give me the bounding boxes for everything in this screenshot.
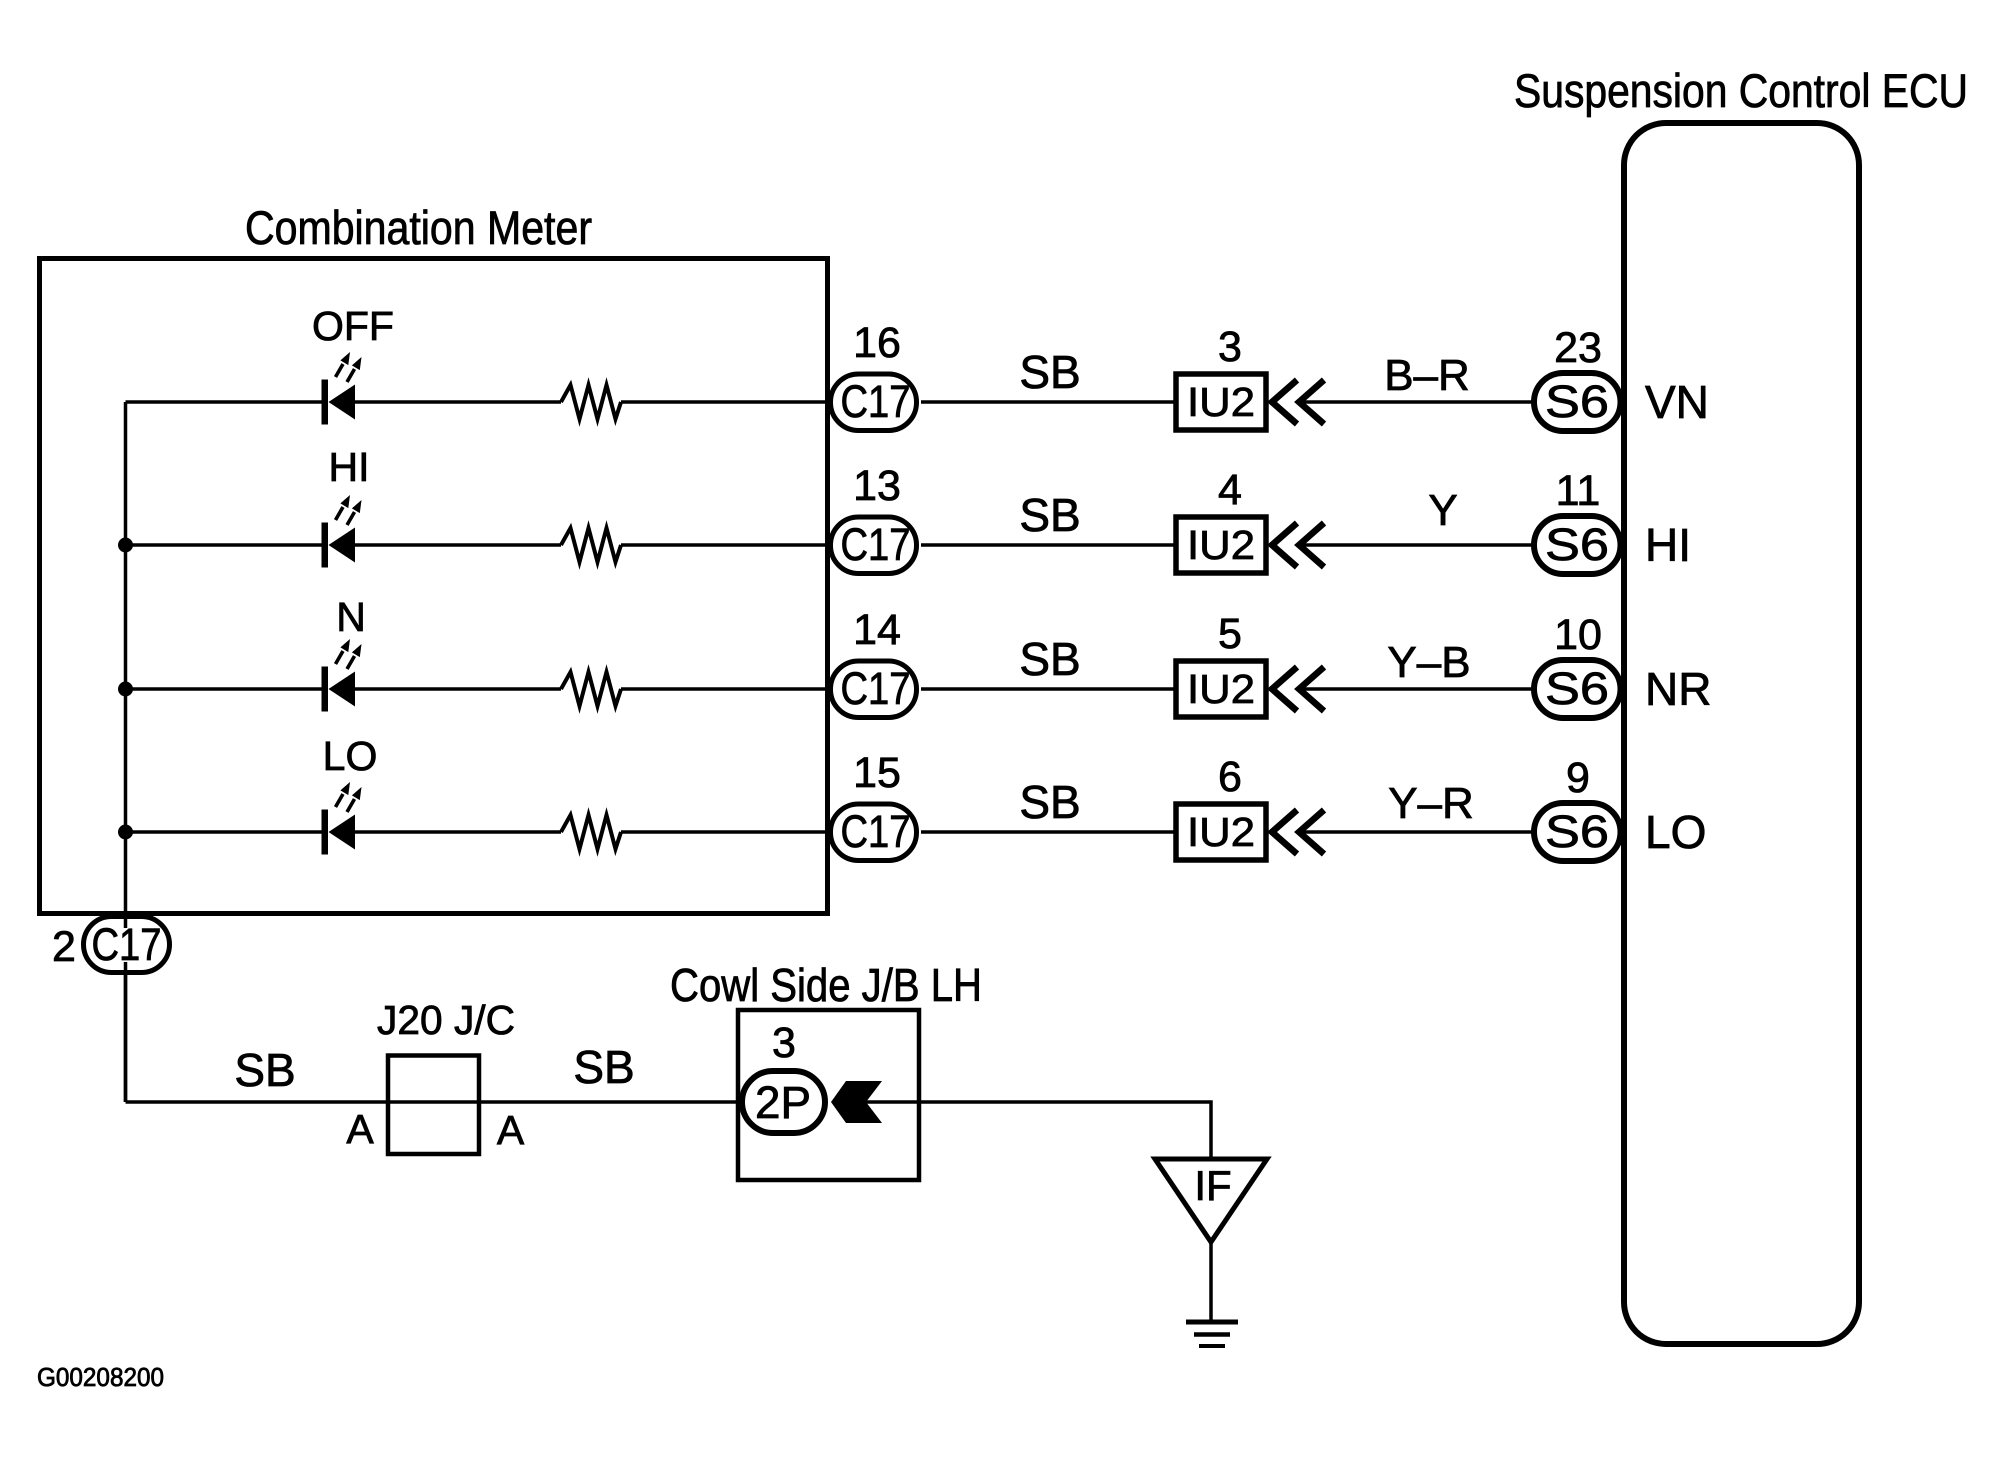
wire row4 resistor to C17	[621, 830, 832, 834]
svg-text:SB: SB	[1019, 346, 1080, 398]
LED D1 cathode bar	[322, 380, 329, 425]
svg-text:J20 J/C: J20 J/C	[377, 997, 515, 1043]
svg-text:C17: C17	[841, 663, 911, 714]
wire row2 chevron to S6, label Y	[1300, 543, 1534, 547]
svg-text:S6: S6	[1545, 663, 1609, 714]
wire row4 LED to resistor	[355, 830, 561, 834]
junction block IU2 row2	[1176, 517, 1266, 573]
wire row1 chevron to S6, label B–R	[1300, 400, 1534, 404]
svg-text:IU2: IU2	[1187, 522, 1255, 568]
junction block IU2 row3	[1176, 661, 1266, 717]
wire row1 LED to resistor	[355, 400, 561, 404]
LED D4 triangle	[329, 815, 356, 850]
wire row3 LED to resistor	[355, 687, 561, 691]
LED D3 triangle	[329, 672, 356, 707]
svg-text:C17: C17	[92, 919, 162, 970]
svg-text:3: 3	[1218, 323, 1242, 371]
resistor R4	[561, 815, 621, 849]
svg-text:SB: SB	[573, 1041, 634, 1093]
wire vertical bus x=125	[124, 402, 128, 1102]
wire vertical through C17 to bottom bus	[124, 916, 128, 1102]
svg-text:5: 5	[1218, 610, 1242, 658]
svg-text:9: 9	[1566, 754, 1590, 802]
ground triangle IF	[1155, 1159, 1267, 1242]
svg-text:10: 10	[1554, 611, 1602, 659]
LED D3 cathode bar	[322, 667, 329, 712]
resistor R1	[561, 385, 621, 419]
chevron connector row4	[1272, 810, 1324, 854]
svg-text:NR: NR	[1645, 663, 1711, 715]
svg-text:Y–R: Y–R	[1388, 779, 1474, 828]
svg-text:HI: HI	[1645, 519, 1691, 571]
wire row3 C17 to IU2, label SB	[921, 687, 1176, 691]
svg-text:Y: Y	[1428, 486, 1457, 535]
wire row2 resistor to C17	[621, 543, 832, 547]
wire triangle to ground	[1209, 1242, 1213, 1322]
chevron connector row3	[1272, 667, 1324, 711]
junction dot row2	[118, 538, 133, 553]
connector S6 row1	[1534, 373, 1621, 431]
resistor R2	[561, 528, 621, 562]
svg-text:2: 2	[52, 923, 76, 971]
junction block IU2 row4	[1176, 804, 1266, 860]
svg-text:3: 3	[772, 1019, 796, 1067]
LED D1 triangle	[329, 385, 356, 420]
svg-text:S6: S6	[1545, 519, 1609, 570]
ground symbol	[1186, 1322, 1238, 1346]
svg-text:SB: SB	[1019, 489, 1080, 541]
svg-text:Cowl Side J/B LH: Cowl Side J/B LH	[670, 959, 982, 1011]
junction dot row3	[118, 682, 133, 697]
junction dot row4	[118, 825, 133, 840]
wire row4 C17 to IU2, label SB	[921, 830, 1176, 834]
svg-text:A: A	[346, 1106, 374, 1152]
LED D4 emission arrows	[336, 782, 362, 812]
svg-text:15: 15	[853, 749, 901, 797]
chevron connector row2	[1272, 523, 1324, 567]
svg-text:2P: 2P	[755, 1077, 811, 1128]
svg-text:SB: SB	[1019, 776, 1080, 828]
svg-text:Suspension Control ECU: Suspension Control ECU	[1514, 64, 1968, 117]
wire 2P to ground drop	[864, 1102, 1211, 1159]
wire bottom bus to 2P, labels SB	[126, 1100, 743, 1104]
wire row3 bus to LED	[126, 687, 323, 691]
svg-text:A: A	[497, 1107, 525, 1153]
svg-text:14: 14	[853, 606, 901, 654]
connector C17 row3	[831, 661, 917, 718]
svg-text:IU2: IU2	[1187, 666, 1255, 712]
connector S6 row4	[1534, 803, 1621, 861]
LED D2 cathode bar	[322, 523, 329, 568]
wire row2 C17 to IU2, label SB	[921, 543, 1176, 547]
svg-text:SB: SB	[1019, 633, 1080, 685]
svg-text:S6: S6	[1545, 376, 1609, 427]
svg-text:VN: VN	[1645, 376, 1709, 428]
wire row4 bus to LED	[126, 830, 323, 834]
svg-text:IU2: IU2	[1187, 809, 1255, 855]
resistor R3	[561, 672, 621, 706]
svg-text:C17: C17	[841, 806, 911, 857]
svg-text:4: 4	[1218, 466, 1242, 514]
wire row2 LED to resistor	[355, 543, 561, 547]
LED D3 emission arrows	[336, 639, 362, 669]
svg-text:SB: SB	[234, 1044, 295, 1096]
LED D2 triangle	[329, 528, 356, 563]
svg-text:S6: S6	[1545, 806, 1609, 857]
wire row1 resistor to C17	[621, 400, 832, 404]
svg-text:IU2: IU2	[1187, 379, 1255, 425]
wire row1 bus to LED	[126, 400, 323, 404]
connector 2 C17 (bottom)	[84, 917, 170, 973]
wire row3 chevron to S6, label Y–B	[1300, 687, 1534, 691]
junction block IU2 row1	[1176, 374, 1266, 430]
connector S6 row3	[1534, 660, 1621, 718]
connector C17 row1	[831, 374, 917, 431]
connector C17 row4	[831, 804, 917, 861]
connector 2P	[742, 1071, 825, 1133]
svg-text:C17: C17	[841, 519, 911, 570]
Cowl Side J/B box	[738, 1010, 919, 1180]
connector C17 row2	[831, 517, 917, 574]
wire row3 resistor to C17	[621, 687, 832, 691]
svg-text:6: 6	[1218, 753, 1242, 801]
LED D2 emission arrows	[336, 495, 362, 525]
svg-text:G00208200: G00208200	[37, 1362, 164, 1392]
svg-text:B–R: B–R	[1384, 351, 1470, 400]
Suspension Control ECU box	[1624, 123, 1859, 1344]
svg-text:Y–B: Y–B	[1387, 638, 1470, 687]
svg-text:LO: LO	[1645, 806, 1706, 858]
chevron connector row1	[1272, 380, 1324, 424]
svg-text:LO: LO	[323, 733, 378, 779]
svg-text:Combination Meter: Combination Meter	[245, 201, 592, 254]
svg-text:13: 13	[853, 462, 901, 510]
svg-text:IF: IF	[1194, 1162, 1231, 1209]
svg-text:C17: C17	[841, 376, 911, 427]
svg-text:16: 16	[853, 319, 901, 367]
Combination Meter box	[40, 259, 828, 914]
svg-text:HI: HI	[329, 444, 370, 490]
wire row1 C17 to IU2, label SB	[921, 400, 1176, 404]
svg-text:N: N	[336, 594, 366, 640]
LED D1 emission arrows	[336, 352, 362, 382]
svg-text:11: 11	[1556, 467, 1601, 515]
LED D4 cathode bar	[322, 810, 329, 855]
junction connector J20 box	[388, 1056, 479, 1155]
arrow connector into 2P	[831, 1081, 882, 1123]
wire row4 chevron to S6, label Y–R	[1300, 830, 1534, 834]
wire row2 bus to LED	[126, 543, 323, 547]
svg-text:23: 23	[1554, 324, 1602, 372]
connector S6 row2	[1534, 516, 1621, 574]
svg-text:OFF: OFF	[312, 303, 394, 349]
